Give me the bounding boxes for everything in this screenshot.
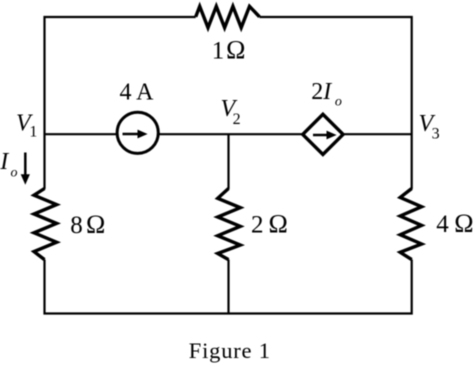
- svg-text:2I: 2I: [311, 79, 332, 105]
- svg-text:2: 2: [251, 211, 264, 238]
- svg-text:2: 2: [233, 111, 241, 128]
- svg-text:Figure 1: Figure 1: [189, 338, 271, 363]
- svg-text:4: 4: [436, 211, 449, 238]
- svg-text:o: o: [335, 94, 342, 109]
- svg-text:8: 8: [70, 212, 83, 239]
- svg-text:I: I: [0, 149, 9, 175]
- svg-text:Ω: Ω: [86, 210, 105, 239]
- svg-text:Ω: Ω: [454, 209, 473, 238]
- svg-text:3: 3: [432, 125, 440, 142]
- svg-text:Ω: Ω: [269, 209, 288, 238]
- svg-text:Ω: Ω: [226, 35, 245, 64]
- svg-text:4 A: 4 A: [120, 80, 155, 106]
- svg-text:1: 1: [212, 37, 225, 64]
- svg-text:o: o: [11, 166, 18, 181]
- svg-text:1: 1: [29, 124, 37, 141]
